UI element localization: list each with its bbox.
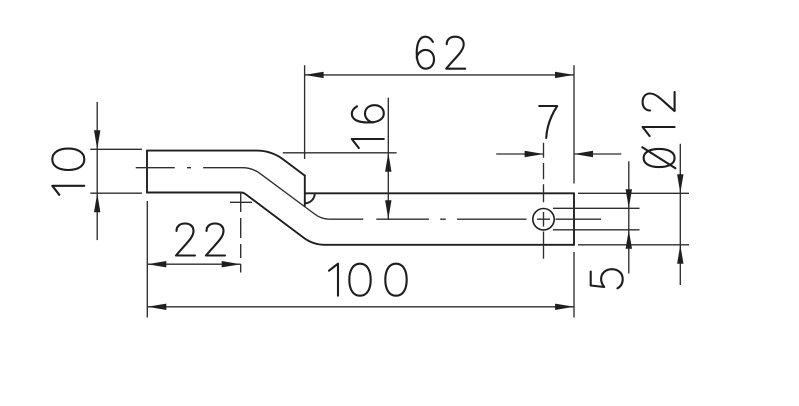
arrow: 100 left [147,304,166,310]
extension line: right end upper [573,65,575,183]
dimension line: diameter 12 [679,144,681,285]
center line: flat section horizontal dash-dot [136,167,191,169]
part outline: top edge flat + bend arc + diagonal [147,151,305,176]
part outline: runout fillet arc [305,193,315,203]
extension line: left end lower [146,201,148,318]
arrow: 7 right points left [574,151,593,157]
part outline: rod top edge [305,192,574,194]
dimension line: 62 [305,74,574,76]
dimension line: 5 [628,161,630,273]
arrow: 10 up below [94,193,100,212]
center line: rod horizontal dash-dot [329,218,601,220]
arrow: 16 down [385,200,391,219]
part outline: right end face [573,193,575,245]
arrow: 100 right [555,304,574,310]
dimension line: 100 [147,306,574,308]
extension line: rod top right [578,192,689,194]
arrow: 5 up below [626,230,632,249]
arrow: 22 left [147,261,166,267]
part outline: left end face [146,151,148,193]
dimension line: 22 [147,263,240,265]
extension line: 10-dim top [90,148,142,150]
arrow: 62 left [305,72,324,78]
extension line: hole top tangent [553,207,640,209]
tick: bend point cross [230,201,252,203]
arrow: 22 right [222,261,241,267]
dimension line: 16 [387,98,389,220]
arrow: diameter12 up below [677,245,683,264]
extension line: rod bottom right [578,244,689,246]
extension line: right end lower [573,252,575,318]
dim text 5 rotated [591,269,623,288]
extension line: 10-dim bottom [90,192,142,194]
arrow: 62 right [555,72,574,78]
extension line: hole bottom tangent [553,229,640,231]
dim text diameter 12 rotated [642,92,675,168]
dim text 62 [417,37,466,69]
extension line: 16-dim top [283,152,397,154]
center line: hole vertical dash-dot [543,143,545,259]
extension line: 62-dim left [304,65,306,159]
dimension line: 7 (two outside segments) [496,153,621,155]
arrow: 7 left points right [525,151,544,157]
dim text 10 rotated [52,149,84,195]
dimension line: 10 [96,102,98,240]
center line: bend curve [203,168,329,220]
arrow: 16 up [385,153,391,172]
dim text 16 rotated [352,105,384,148]
dim text 22 [176,224,225,256]
arrow: 10 down above [94,130,100,149]
part outline: rod bottom edge + bend arc + diagonal + corner arc + flat bottom edge [147,193,574,245]
extension line: 22-dim right dashed [240,192,242,273]
part outline: step vertical (end of flat) [304,175,306,206]
dim text 7 [539,106,557,138]
arrow: diameter12 down above [677,174,683,193]
arrow: 5 down above [626,189,632,208]
dim text 100 [329,264,407,296]
hole circle [533,209,554,230]
